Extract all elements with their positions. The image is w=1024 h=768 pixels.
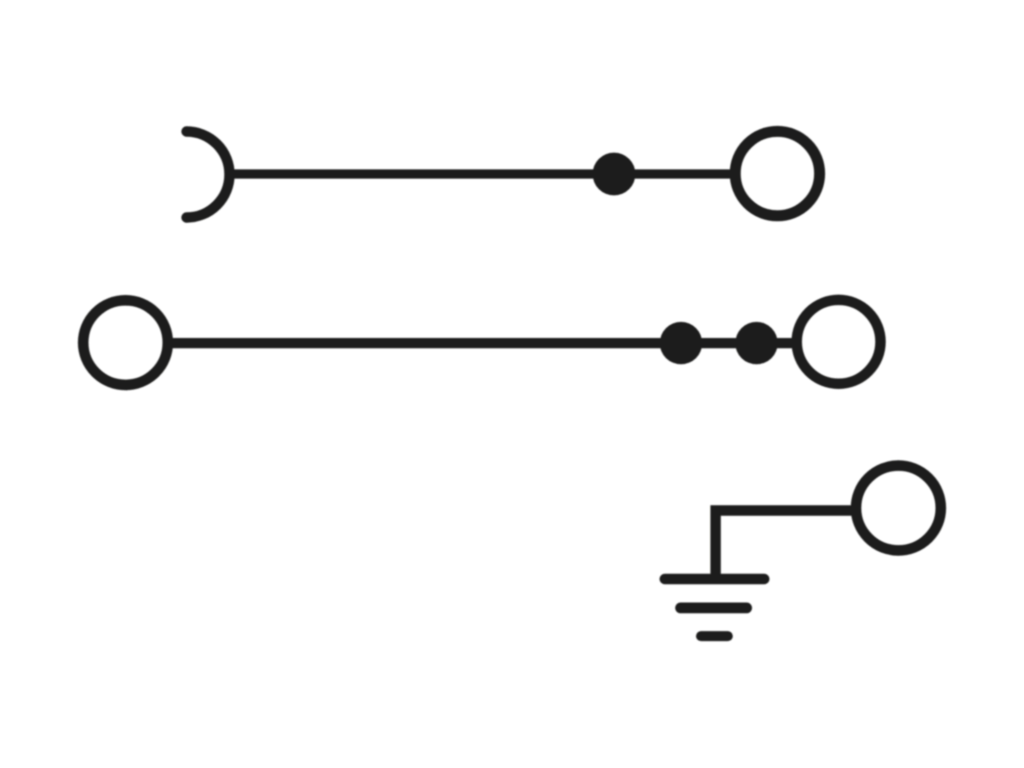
wire (top row, fork to right circle) <box>230 169 733 178</box>
ground bar 2 (middle) <box>681 603 747 614</box>
fork contact (open arc) top-left <box>187 132 230 218</box>
terminal circle (middle left) <box>83 300 168 385</box>
terminal circle (middle right) <box>797 300 881 384</box>
node (junction dot 2, middle row) <box>735 322 777 364</box>
node (junction dot 1, middle row) <box>660 322 702 364</box>
node (junction dot, top row) <box>593 153 636 196</box>
ground bar 3 (bottom, shortest) <box>701 631 728 641</box>
terminal circle (top right) <box>735 131 819 215</box>
ground bar 1 (top, longest) <box>665 574 765 584</box>
terminal circle (bottom right) <box>856 466 941 551</box>
wire (elbow from bottom circle to ground) <box>716 511 852 580</box>
wire (middle row) <box>168 338 796 348</box>
